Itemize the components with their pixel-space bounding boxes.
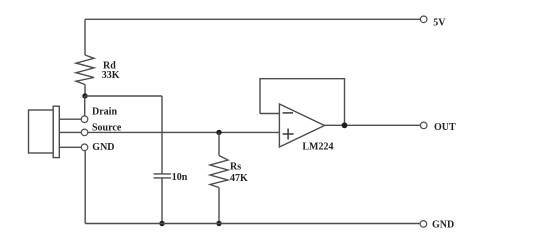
node capacitor-ground junction	[159, 221, 164, 226]
pin Source lead	[59, 131, 81, 133]
terminal OUT	[420, 122, 427, 129]
svg-text:10n: 10n	[172, 172, 188, 183]
wire Rd bottom to drain node	[84, 85, 86, 96]
resistor Rd	[76, 55, 94, 85]
op-amp U1 triangle	[279, 104, 324, 147]
svg-text:Rs: Rs	[230, 161, 241, 172]
wire from 5V rail down to Rd	[84, 19, 86, 55]
pin Drain terminal circle	[81, 116, 88, 123]
node output-feedback junction	[342, 122, 348, 128]
wire op-amp output	[325, 124, 421, 126]
op-amp minus sign	[283, 112, 294, 114]
svg-text:Drain: Drain	[92, 107, 117, 118]
wire drain node to Drain pin	[84, 96, 86, 116]
svg-text:GND: GND	[432, 219, 454, 230]
node source-Rs junction	[216, 130, 221, 135]
resistor Rs	[210, 156, 228, 188]
wire source line to op-amp input	[88, 131, 280, 133]
svg-text:47K: 47K	[230, 173, 248, 184]
wire inverting input	[260, 113, 279, 115]
terminal GND	[420, 221, 427, 228]
svg-text:LM224: LM224	[302, 141, 333, 152]
terminal 5V	[420, 16, 427, 23]
node Rs-ground junction	[216, 221, 221, 226]
wire bottom ground rail	[85, 223, 420, 225]
wire capacitor branch down	[161, 96, 163, 174]
wire GND pin down	[84, 151, 86, 224]
wire capacitor to ground rail	[161, 178, 163, 224]
wire feedback loop	[260, 79, 345, 126]
capacitor C1 bottom plate	[154, 177, 172, 179]
wire top 5V rail	[85, 18, 420, 20]
svg-text:GND: GND	[92, 142, 114, 153]
pin GND lead	[59, 146, 81, 148]
sensor TO package flange	[53, 106, 59, 157]
pin Drain lead	[59, 118, 81, 120]
wire Rs top lead	[218, 132, 220, 155]
capacitor C1 top plate	[154, 173, 172, 175]
wire Rs bottom lead	[218, 188, 220, 224]
sensor TO package body	[29, 110, 54, 153]
pin GND terminal circle	[81, 144, 88, 151]
pin Source terminal circle	[81, 129, 88, 136]
svg-text:5V: 5V	[433, 17, 446, 28]
node drain junction	[82, 93, 87, 98]
svg-text:OUT: OUT	[434, 122, 456, 133]
wire drain node to capacitor branch	[85, 95, 162, 97]
svg-text:33K: 33K	[102, 70, 120, 81]
op-amp plus sign	[283, 129, 294, 140]
